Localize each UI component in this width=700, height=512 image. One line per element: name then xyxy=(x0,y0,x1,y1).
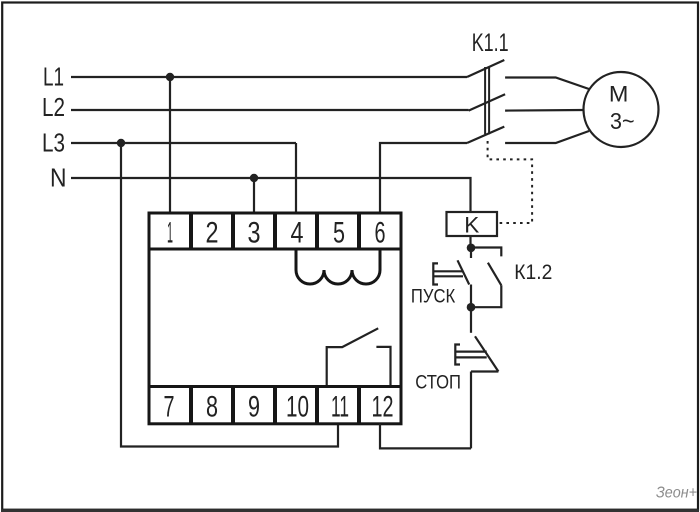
button STOP blade xyxy=(475,336,498,371)
svg-text:L1: L1 xyxy=(43,61,64,91)
svg-text:10: 10 xyxy=(286,390,309,423)
svg-text:2: 2 xyxy=(206,217,219,250)
contactor K1.1 pole 3 blade xyxy=(467,127,504,143)
node L3 junction xyxy=(117,139,125,147)
wire pole 1 to motor xyxy=(505,78,589,90)
button PUSK actuator xyxy=(433,263,463,284)
terminal row dividers top xyxy=(191,213,359,249)
dashed link contactor to coil K xyxy=(488,141,532,223)
contactor K1.1 mechanical linkage xyxy=(484,67,486,134)
terminal row dividers bottom xyxy=(191,387,359,424)
wire L1 to terminal 1 xyxy=(169,77,171,213)
device top terminal row separator xyxy=(149,248,401,251)
wire terminal 12 to STOP xyxy=(380,424,471,449)
svg-text:К1.2: К1.2 xyxy=(514,261,552,284)
internal coil winding under terminals 4-6 xyxy=(296,249,380,284)
internal relay contact near terminals 11-12 xyxy=(327,328,391,385)
wire coil K to node xyxy=(469,236,471,244)
svg-text:СТОП: СТОП xyxy=(415,373,461,394)
wire terminal 6 to contactor pole 3 xyxy=(380,143,467,213)
svg-text:K1.1: K1.1 xyxy=(472,29,509,57)
wire node down xyxy=(470,248,472,258)
node below PUSK xyxy=(467,303,476,312)
button STOP actuator xyxy=(455,345,486,365)
svg-text:L2: L2 xyxy=(42,92,65,122)
wire STOP down xyxy=(470,372,472,449)
svg-text:12: 12 xyxy=(372,390,394,423)
wire L3 line xyxy=(71,142,296,144)
wire pole 2 to motor xyxy=(505,109,583,112)
wire L2 line xyxy=(71,109,469,111)
svg-text:K: K xyxy=(464,212,479,237)
motor M 3~ circle xyxy=(584,72,659,147)
wire pole 3 to motor xyxy=(505,131,589,143)
svg-text:3~: 3~ xyxy=(610,108,635,134)
device body outline xyxy=(149,213,401,424)
node L1 junction xyxy=(166,73,174,81)
svg-text:3: 3 xyxy=(248,217,261,250)
svg-text:1: 1 xyxy=(167,217,173,250)
svg-text:N: N xyxy=(50,163,67,193)
wire N line xyxy=(71,178,471,212)
wire L3 to terminal 4 xyxy=(295,143,297,213)
svg-text:ПУСК: ПУСК xyxy=(411,286,455,307)
svg-text:7: 7 xyxy=(164,390,175,423)
svg-text:4: 4 xyxy=(291,217,304,250)
node above PUSK xyxy=(467,244,476,253)
svg-text:5: 5 xyxy=(333,217,345,250)
svg-text:M: M xyxy=(609,82,629,107)
svg-text:L3: L3 xyxy=(42,127,65,157)
node N junction xyxy=(250,174,258,182)
device bottom terminal row separator xyxy=(149,385,401,388)
wire node to STOP xyxy=(470,307,472,333)
wire node to K1.2 branch xyxy=(471,248,501,257)
wire PUSK to bottom node xyxy=(470,285,472,308)
svg-text:Зеон+: Зеон+ xyxy=(656,485,697,502)
wire L1 line xyxy=(71,76,467,78)
wire L3 junction down to bottom row xyxy=(121,143,338,447)
svg-text:8: 8 xyxy=(206,390,218,423)
wire K1.2 to bottom node xyxy=(471,285,501,307)
contact K1.2 blade xyxy=(488,263,501,286)
contactor K1.1 pole 2 blade xyxy=(469,94,506,110)
svg-text:9: 9 xyxy=(248,390,260,423)
svg-text:6: 6 xyxy=(375,217,386,250)
button PUSK blade xyxy=(458,260,470,284)
contactor K1.1 pole 1 blade xyxy=(467,60,504,77)
button STOP bottom bar xyxy=(471,370,498,372)
coil K box xyxy=(447,212,498,236)
svg-text:11: 11 xyxy=(331,390,349,423)
wire N to terminal 3 xyxy=(253,178,255,213)
